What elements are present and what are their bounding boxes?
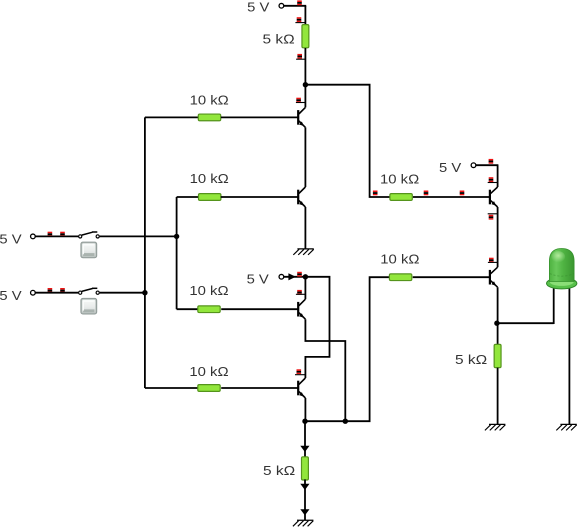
label R1 5 kΩ — [263, 32, 296, 47]
wire VCC1 to R1 — [284, 6, 306, 25]
ground G1 — [293, 249, 314, 255]
pin marker VCC2 wire — [297, 272, 302, 277]
label R6 10 kΩ — [380, 172, 420, 187]
wire D2 to Q3 collector — [304, 277, 306, 299]
current arrow above R9 — [300, 446, 309, 452]
transistor Q6 NPN — [490, 267, 498, 287]
node D5 junction dot — [174, 234, 179, 239]
resistor R6 10 kOhm — [390, 194, 412, 201]
node D2 junction dot — [303, 274, 308, 279]
wire row4 to R5 — [145, 387, 198, 389]
current arrow on VCC2 wire — [288, 273, 295, 280]
svg-text:10 kΩ: 10 kΩ — [190, 171, 230, 186]
svg-text:10 kΩ: 10 kΩ — [380, 172, 420, 187]
pin marker input A switch pin — [60, 232, 65, 237]
terminal input B — [31, 290, 36, 295]
LED D1 (lit green) — [547, 249, 577, 289]
wire Q2 emitter to ground — [304, 207, 306, 249]
wire R6 to Q5 base — [413, 196, 490, 198]
node VCC2 label 5 V — [247, 272, 270, 287]
LED D1 anode lead wire — [568, 289, 570, 425]
wire row2 to R3 — [177, 196, 199, 198]
ground G3 — [556, 424, 577, 430]
label R8 5 kΩ — [455, 352, 488, 367]
terminal input A — [31, 234, 36, 239]
ground G2 — [485, 424, 506, 430]
resistor R5 10 kOhm — [198, 385, 220, 392]
pin marker R6 right pin — [424, 191, 429, 196]
wire Q5 emitter to Q6 collector — [497, 207, 499, 267]
node D4 junction dot — [343, 419, 348, 424]
wire R5 to Q4 base — [221, 387, 298, 389]
resistor R1 5 kOhm — [302, 25, 309, 48]
pin marker R1 bottom pin — [296, 54, 306, 59]
transistor Q1 NPN — [298, 107, 305, 127]
pin marker input B terminal — [48, 288, 53, 293]
resistor R8 5 kOhm — [494, 344, 501, 367]
wire D3 to R9 — [304, 421, 306, 457]
resistor R9 5 kOhm — [302, 457, 309, 480]
svg-text:5 V: 5 V — [0, 288, 22, 303]
wire R4 to Q3 base — [221, 308, 298, 310]
wire node A to R6 row — [305, 85, 390, 197]
wire Q4 emitter to node D3 — [304, 398, 306, 421]
wire row1 to R2 — [145, 116, 199, 118]
pin marker Q6 collector — [488, 258, 498, 263]
wire D2 to Q4 collector (via right jog) — [305, 277, 329, 378]
wire Q1 emitter to Q2 collector — [304, 127, 306, 187]
wire switch SW1 to node D5 — [100, 235, 177, 237]
terminal VCC3 5 V supply — [471, 163, 476, 168]
ground G4 — [293, 520, 314, 526]
svg-text:10 kΩ: 10 kΩ — [189, 283, 229, 298]
label R4 10 kΩ — [189, 283, 229, 298]
node input B label 5 V — [0, 288, 22, 303]
node VCC3 label 5 V — [439, 160, 462, 175]
svg-text:5 V: 5 V — [0, 232, 22, 247]
node D3 junction dot — [302, 419, 307, 424]
wire Q6 emitter to node D7 — [497, 287, 499, 323]
resistor R4 10 kOhm — [198, 306, 220, 313]
node D6 junction dot — [142, 290, 147, 295]
transistor Q5 NPN — [490, 187, 498, 207]
wire R2 to Q1 base — [221, 116, 298, 118]
label R5 10 kΩ — [189, 364, 229, 379]
node D7 junction dot — [494, 321, 499, 326]
terminal VCC1 5 V supply — [279, 3, 284, 8]
pin marker R1 top pin — [295, 17, 305, 22]
wire input B bus vertical — [144, 117, 146, 388]
svg-text:5 V: 5 V — [247, 272, 270, 287]
pin marker Q4 collector — [295, 369, 305, 374]
pin marker input A terminal — [48, 232, 53, 237]
resistor R2 10 kOhm — [198, 114, 220, 121]
current arrow above ground G4 — [300, 509, 309, 515]
wire input A terminal to switch SW1 — [35, 235, 78, 237]
current arrow below R9 — [300, 484, 309, 490]
wire R9 to ground — [304, 479, 306, 520]
terminal VCC2 5 V supply — [279, 274, 284, 279]
svg-text:10 kΩ: 10 kΩ — [380, 252, 420, 267]
wire R7 to Q6 base — [413, 276, 490, 278]
wire switch SW2 to node D6 — [100, 292, 145, 294]
wire R3 to Q2 base — [221, 196, 299, 198]
label R9 5 kΩ — [263, 463, 296, 478]
button actuator SW1 — [81, 242, 97, 258]
wire D7 to R8 — [497, 323, 499, 344]
pin marker R6 left pin — [373, 191, 378, 196]
switch SW2 push-to-make (open) — [79, 288, 100, 294]
pin marker top wire — [297, 0, 302, 5]
wire D7 to LED cathode — [497, 289, 554, 325]
node A junction dot — [303, 82, 308, 87]
node input A label 5 V — [0, 232, 22, 247]
wire VCC2 to node D2 — [284, 276, 306, 278]
wire input B terminal to switch SW2 — [35, 292, 78, 294]
svg-text:10 kΩ: 10 kΩ — [190, 92, 230, 107]
resistor R3 10 kOhm — [199, 194, 221, 201]
switch SW1 push-to-make (open) — [79, 232, 100, 238]
wire output rail to R7 row — [305, 277, 390, 421]
resistor R7 10 kOhm — [389, 274, 411, 281]
pin marker VCC3 wire — [489, 159, 494, 164]
button actuator SW2 — [81, 298, 97, 314]
svg-text:5 kΩ: 5 kΩ — [263, 32, 296, 47]
node VCC1 label 5 V — [247, 0, 270, 14]
svg-text:5 kΩ: 5 kΩ — [263, 463, 296, 478]
svg-text:5 kΩ: 5 kΩ — [455, 352, 488, 367]
wire row3 to R4 — [177, 308, 198, 310]
pin marker Q5 emitter — [488, 214, 498, 220]
pin marker Q5 base pin — [460, 191, 465, 196]
wire Q3 emitter to node D4 — [305, 319, 345, 421]
svg-text:5 V: 5 V — [247, 0, 270, 14]
transistor Q3 NPN — [298, 299, 305, 319]
svg-text:5 V: 5 V — [439, 160, 462, 175]
transistor Q2 NPN — [298, 187, 305, 207]
svg-text:10 kΩ: 10 kΩ — [189, 364, 229, 379]
pin marker Q3 collector — [296, 290, 306, 295]
wire R1 to Q1 collector — [304, 48, 306, 107]
pin marker Q1 collector — [296, 98, 306, 103]
label R2 10 kΩ — [190, 92, 230, 107]
wire input A bus vertical — [176, 197, 178, 309]
pin marker input B switch pin — [60, 288, 65, 293]
label R7 10 kΩ — [380, 252, 420, 267]
label R3 10 kΩ — [190, 171, 230, 186]
pin marker Q5 collector — [488, 177, 498, 182]
wire VCC3 to Q5 collector — [476, 165, 499, 187]
transistor Q4 NPN — [298, 378, 305, 398]
wire R8 to ground — [497, 368, 499, 425]
